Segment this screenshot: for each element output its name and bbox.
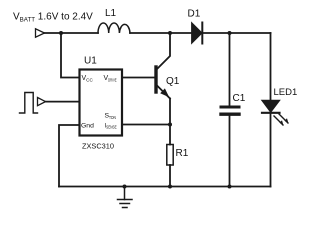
capacitor C1 xyxy=(221,106,239,109)
pulse symbol xyxy=(20,93,38,114)
IC U1 box xyxy=(80,70,123,136)
wire R1 to bottom rail xyxy=(169,165,171,187)
svg-text:R1: R1 xyxy=(176,148,189,159)
ground symbol xyxy=(118,187,133,208)
input terminal pulse (open triangle) xyxy=(38,98,46,106)
Q1 collector xyxy=(158,33,171,69)
wire emitter down to junction xyxy=(169,99,171,145)
svg-text:ZXSC310: ZXSC310 xyxy=(82,142,114,151)
svg-text:VDRIVE: VDRIVE xyxy=(104,75,117,82)
wire top rail right xyxy=(202,32,270,34)
svg-text:STDN: STDN xyxy=(105,113,116,120)
wire VCC branch: down from top rail, to U1 xyxy=(61,33,80,78)
wire right vertical (LED branch top) xyxy=(270,33,272,101)
transistor Q1 base bar xyxy=(154,67,157,92)
wire C1 bottom xyxy=(229,116,231,187)
diode D1 xyxy=(192,24,202,43)
svg-text:VCC: VCC xyxy=(82,75,94,82)
LED emission arrows xyxy=(274,114,289,126)
wire top rail left xyxy=(45,32,99,34)
svg-text:VBATT 1.6V to 2.4V: VBATT 1.6V to 2.4V xyxy=(13,12,93,24)
Q1 emitter xyxy=(158,86,171,99)
svg-text:LED1: LED1 xyxy=(274,87,298,98)
resistor R1 body xyxy=(167,145,173,166)
wire LED to bottom rail xyxy=(270,113,272,187)
wire C1 branch top xyxy=(229,33,231,106)
svg-text:U1: U1 xyxy=(84,56,97,67)
svg-text:D1: D1 xyxy=(188,9,201,20)
wire top rail mid xyxy=(130,32,192,34)
svg-text:ISENSE: ISENSE xyxy=(105,124,117,130)
wire Gnd: from U1 left, down to bottom rail xyxy=(59,125,80,187)
wire ISENSE: U1 to emitter junction xyxy=(122,124,170,126)
svg-text:C1: C1 xyxy=(233,93,246,104)
bottom rail xyxy=(59,186,271,188)
input terminal VBATT (open triangle) xyxy=(36,29,45,37)
svg-text:Q1: Q1 xyxy=(166,76,180,87)
svg-text:Gnd: Gnd xyxy=(81,123,94,130)
wire pulse to U1 xyxy=(46,101,80,103)
inductor L1 xyxy=(98,23,130,33)
svg-text:L1: L1 xyxy=(105,8,117,19)
wire VDRIVE: U1 to Q1 base xyxy=(122,77,155,79)
LED1 diode xyxy=(263,101,280,112)
